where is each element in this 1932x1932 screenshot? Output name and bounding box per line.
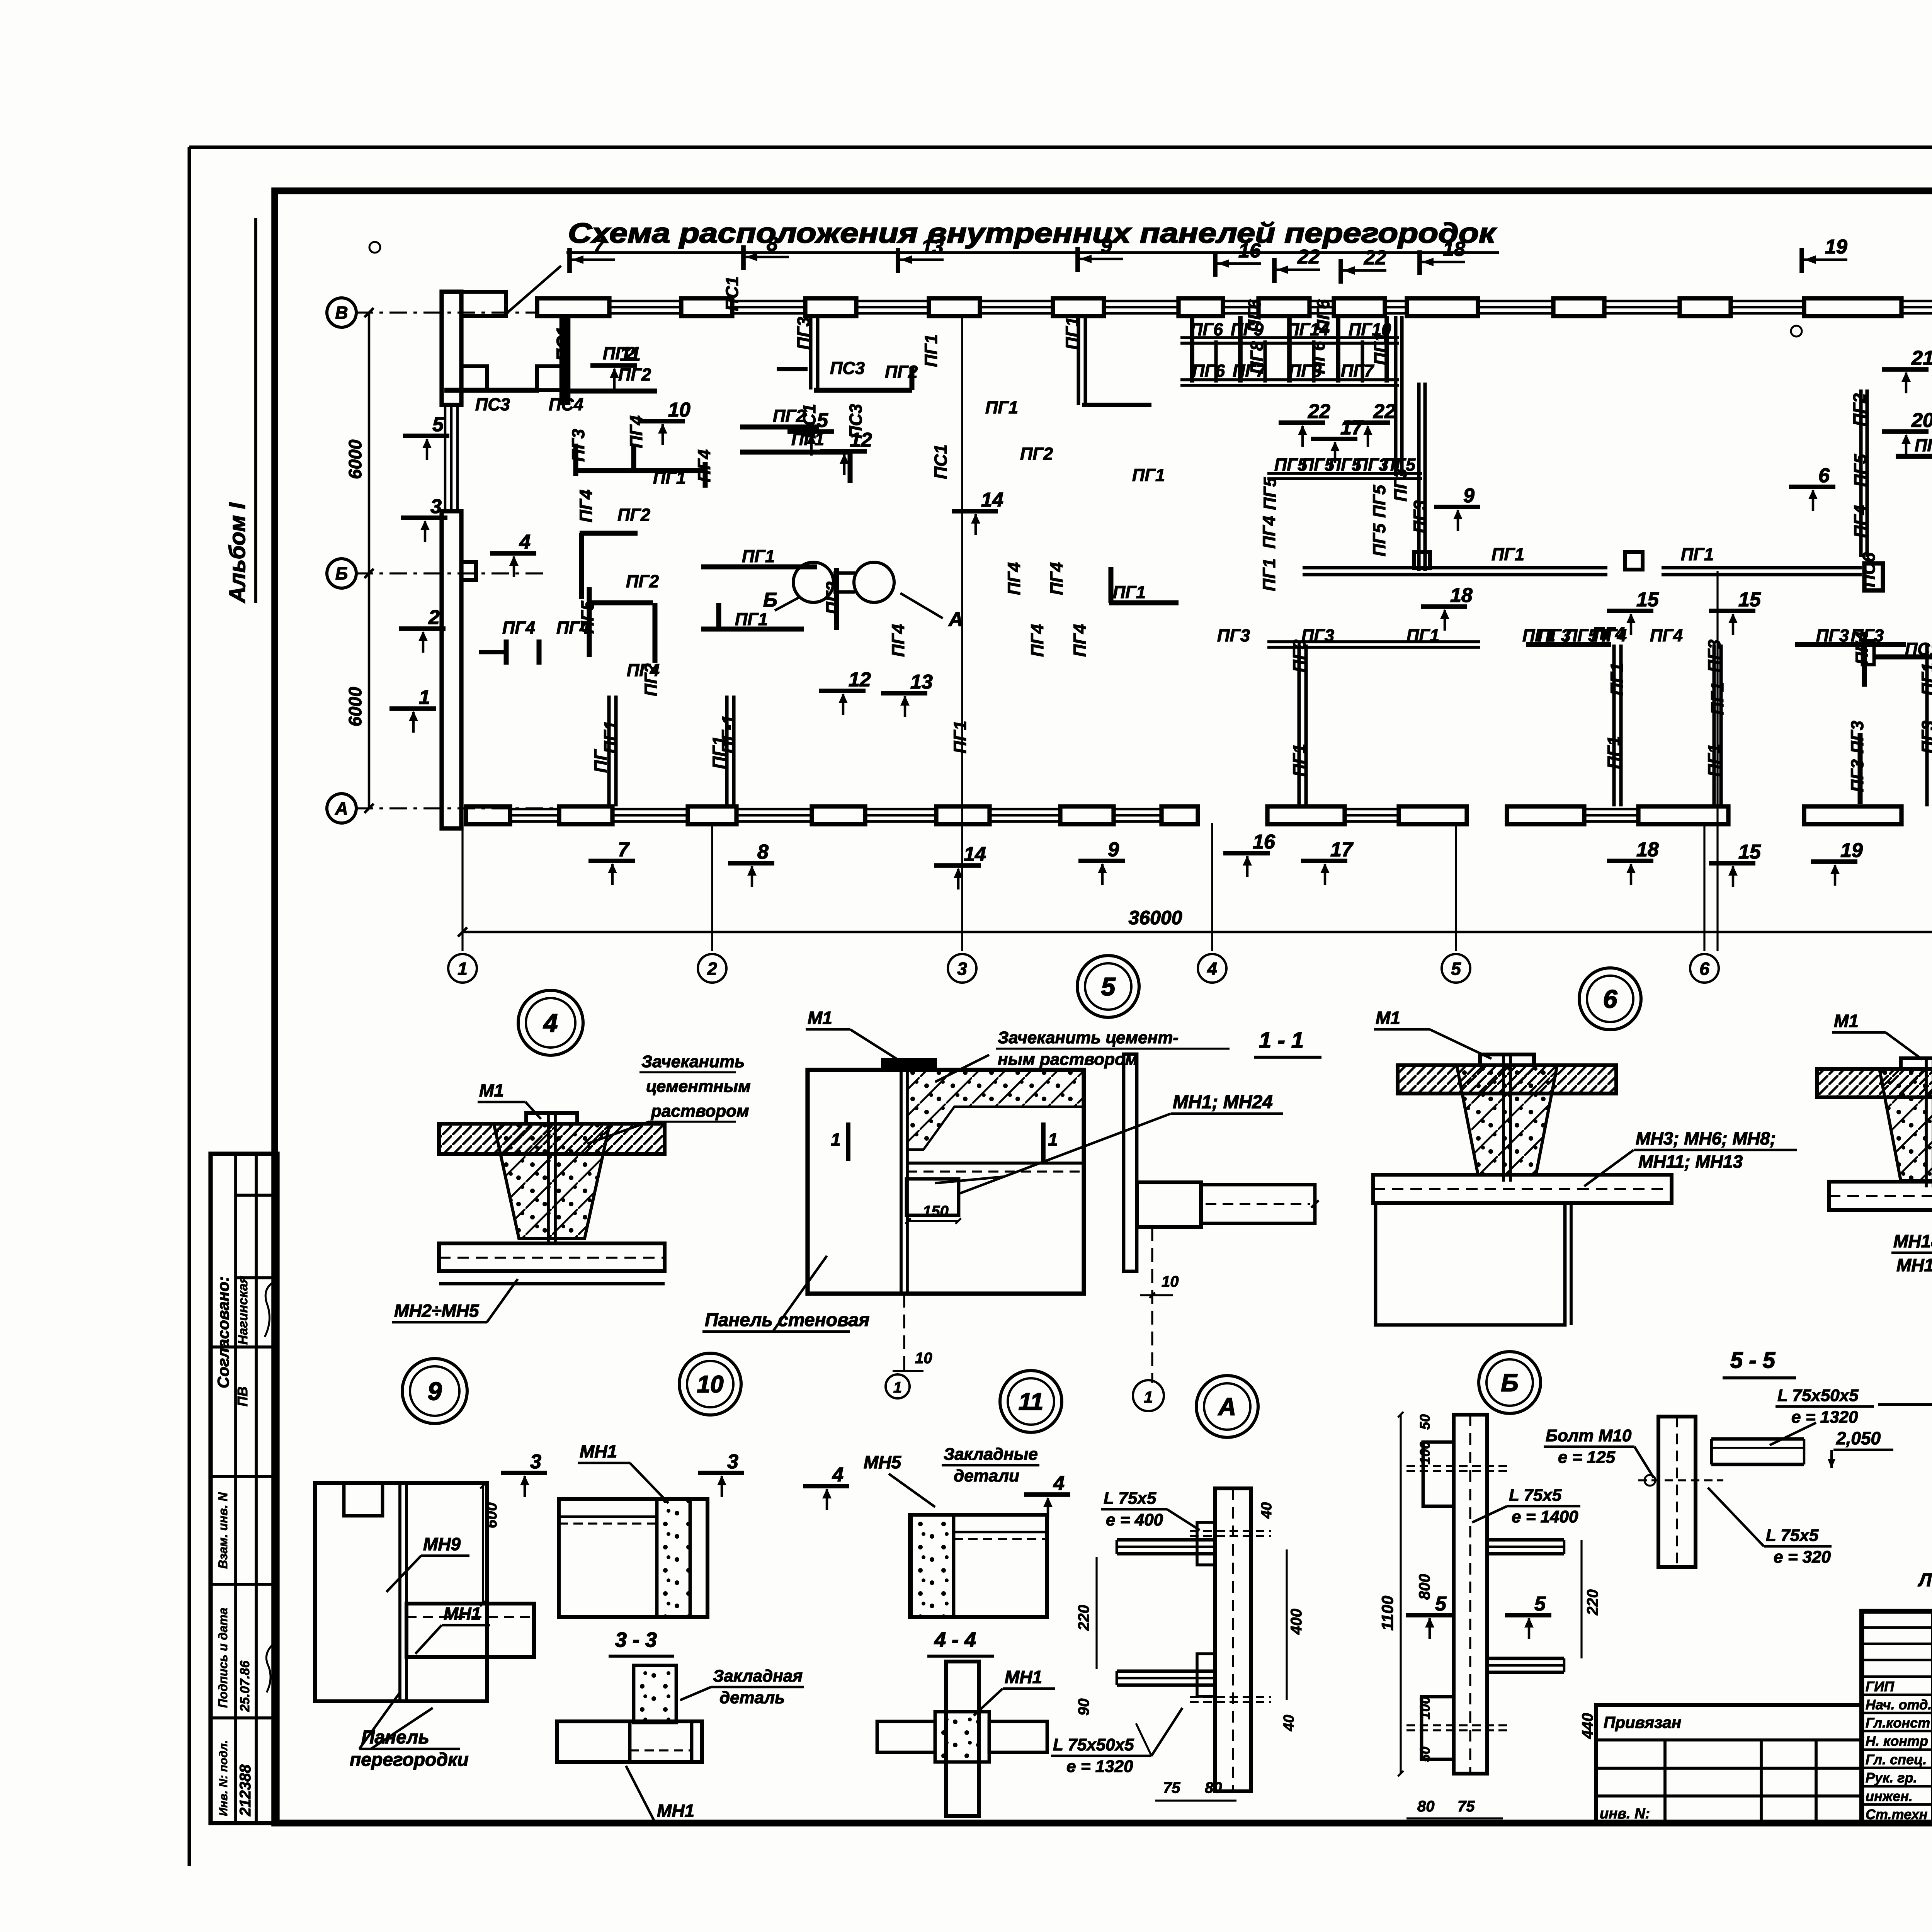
detail bubble A [1196,1376,1258,1437]
bottom exterior wall segment 4 [1804,806,1901,824]
detail 6 joint [1398,1054,1616,1182]
svg-text:3: 3 [957,959,967,979]
svg-text:440: 440 [1579,1713,1596,1739]
svg-text:Зачеканить: Зачеканить [641,1052,745,1071]
svg-text:ПС1: ПС1 [1905,639,1932,659]
svg-text:инжен.: инжен. [1866,1788,1913,1804]
detail A angle bottom [1117,1671,1215,1685]
detail 1-1 edge bolt [1140,1227,1179,1383]
section 3-3 label zakl [680,1667,804,1707]
svg-text:МН9: МН9 [423,1534,461,1554]
svg-text:В: В [335,303,348,323]
detail 1-1 flag 1 left [831,1122,848,1161]
svg-text:Зачеканить цемент-: Зачеканить цемент- [998,1028,1179,1047]
svg-text:ПГ4: ПГ4 [1047,562,1066,595]
svg-text:36000: 36000 [1128,907,1182,929]
svg-text:4: 4 [519,531,531,553]
svg-text:ПГ2: ПГ2 [823,582,842,614]
svg-text:ПГ4: ПГ4 [1027,624,1047,657]
top exterior wall with panels [537,298,1932,316]
section 4-4 body [877,1662,1047,1816]
detail 7 label MN18 [1891,1217,1932,1275]
outer border left [187,147,191,1866]
svg-text:ПГ4: ПГ4 [888,624,908,657]
axis circle B [327,559,356,588]
svg-text:ПГ3: ПГ3 [1217,626,1250,645]
svg-text:ПГ3: ПГ3 [1704,639,1724,672]
svg-text:ПС1: ПС1 [799,404,819,439]
partition room h3 [1795,642,1906,647]
svg-text:ПГ3: ПГ3 [568,429,588,462]
svg-text:Лист: Лист [1918,1570,1932,1590]
detail 7 label M1 [1832,1011,1922,1060]
detail 1-1 bubble 1 right [1133,1380,1164,1411]
shower room grid [1180,316,1425,571]
svg-text:е = 125: е = 125 [1558,1448,1616,1467]
detail A dim 400 [1287,1549,1305,1700]
detail B angle top [1487,1540,1564,1554]
detail 1-1 bubble 1 left [886,1374,910,1398]
detail A bolt bottom [1190,1697,1271,1702]
detail 1-1 step detail [906,1179,959,1215]
svg-text:ПГ4: ПГ4 [1850,505,1870,538]
detail 1-1 anchor plate [883,1060,935,1070]
svg-text:4: 4 [1207,959,1217,979]
svg-text:ПГ4: ПГ4 [1650,626,1683,645]
svg-text:13: 13 [910,671,933,693]
svg-text:Ст.техн: Ст.техн [1866,1806,1928,1822]
svg-text:ПГ3: ПГ3 [1816,626,1849,645]
svg-text:7: 7 [593,236,605,258]
detail 4 joint [439,1113,665,1245]
title block privyazan grid [1596,1705,1862,1823]
svg-text:раствором: раствором [651,1102,749,1121]
svg-text:220: 220 [1075,1605,1092,1631]
detail bubble 10 [679,1353,741,1415]
partition PS3 horizontal [444,388,539,393]
detail 7 panel below [1829,1182,1932,1210]
detail 10 flag 3 right [698,1451,744,1497]
svg-text:100: 100 [1417,1441,1433,1464]
detail 11 flag 4 right [1024,1472,1070,1519]
svg-text:А: А [335,798,348,818]
left stamp row c [211,1345,277,1349]
detail 6 panel elevation [1376,1203,1571,1325]
partition PG stub right [1109,567,1179,603]
svg-text:МН1: МН1 [1005,1667,1042,1687]
partition PS6 box [1864,563,1883,590]
detail B dim 80 75 [1406,1798,1503,1818]
svg-text:ГИП: ГИП [1866,1679,1895,1694]
left stamp block border [211,1154,277,1823]
door callout circle B [793,562,833,602]
left exterior wall [442,292,506,828]
detail A plate top [1197,1522,1215,1565]
svg-text:6: 6 [1699,959,1709,979]
section 5-5 label [1723,1348,1796,1378]
svg-text:ПГ1: ПГ1 [735,609,768,629]
svg-text:ПГ1: ПГ1 [950,721,970,753]
svg-text:МН18: МН18 [1893,1231,1932,1251]
partition PG1 tee [576,444,705,488]
partition room v4 [1927,643,1932,806]
svg-text:600: 600 [483,1502,500,1528]
partition PG2 cluster [589,587,655,663]
section 3-3 label [609,1628,674,1656]
svg-text:Привязан: Привязан [1604,1713,1681,1731]
detail bubble 9 [402,1359,467,1423]
svg-text:L 75х5: L 75х5 [1509,1486,1562,1505]
partition PG2 horizontal [565,389,657,394]
detail B flange bottom [1422,1697,1454,1759]
partition PG2 right stub [1896,454,1932,459]
detail B flag 5 right [1505,1593,1551,1639]
corridor wall axis B [1303,552,1862,575]
grid bubbles 1-7 [448,954,1932,983]
door callout circle A [854,562,894,602]
svg-text:е = 400: е = 400 [1106,1510,1163,1529]
section 5-5 label L75x50x5 [1770,1386,1874,1445]
svg-text:5: 5 [432,413,444,436]
detail 1-1 inner line [907,1163,1084,1172]
partition PS1 vertical [560,316,571,405]
svg-text:80: 80 [1417,1798,1435,1815]
svg-text:20: 20 [1911,409,1932,432]
detail A plate bottom [1197,1654,1215,1696]
partition PG long v2 [727,696,734,806]
svg-text:ПГ2: ПГ2 [603,344,636,363]
detail 10 flag 3 left [501,1451,547,1497]
svg-text:цементным: цементным [646,1077,751,1096]
svg-text:Н. контр: Н. контр [1866,1733,1928,1749]
detail 1-1 label panel [702,1256,869,1332]
svg-text:17: 17 [1340,417,1364,439]
svg-text:3 - 3: 3 - 3 [615,1628,657,1651]
svg-text:6: 6 [1603,985,1618,1013]
detail A dim 75 80 [1155,1779,1236,1801]
detail B flag 5 left [1406,1593,1452,1639]
svg-text:ПС1: ПС1 [931,444,951,479]
detail 10 label MN1 [578,1441,668,1503]
svg-text:Подпись и дата: Подпись и дата [216,1608,230,1708]
svg-text:220: 220 [1584,1589,1601,1616]
partition room v3 [1714,645,1721,806]
detail 4 label M1 [478,1080,541,1119]
svg-text:МН1; МН24: МН1; МН24 [1173,1092,1273,1112]
left stamp row f [211,1716,277,1719]
door callout link [833,573,855,592]
detail 11 label MN5 [864,1452,935,1507]
svg-text:1: 1 [457,959,468,979]
svg-text:ПС4: ПС4 [549,395,583,414]
svg-text:М1: М1 [808,1008,832,1028]
detail 1-1 concrete top [907,1070,1084,1150]
svg-text:Альбом I: Альбом I [225,502,250,604]
svg-text:ПГ4: ПГ4 [1852,632,1872,665]
svg-text:22: 22 [1297,246,1320,268]
svg-text:ПГ2: ПГ2 [617,505,650,525]
svg-text:8: 8 [767,233,778,255]
detail A angle top [1117,1540,1215,1554]
svg-text:18: 18 [1443,238,1465,260]
detail bubble B [1479,1352,1541,1413]
section 5-5 level 2.050 [1828,1428,1893,1468]
svg-text:40: 40 [1281,1715,1297,1731]
axis line A [355,807,560,809]
svg-text:16: 16 [1253,831,1276,853]
svg-text:ПГ6: ПГ6 [1313,299,1333,332]
detail 11 flag 4 left [803,1464,849,1510]
section 4-4 label [927,1628,994,1656]
svg-text:Б: Б [1501,1369,1518,1396]
svg-text:212388: 212388 [237,1764,254,1816]
svg-text:ПГ1: ПГ1 [1406,626,1439,645]
detail 1-1 label M1 [806,1008,896,1059]
svg-text:ПГ4: ПГ4 [1004,562,1024,595]
svg-text:Гл. спец.: Гл. спец. [1866,1752,1927,1767]
partition PG long v1 [609,696,616,806]
svg-text:ПГ1: ПГ1 [1371,332,1390,365]
svg-text:ПГ7: ПГ7 [1341,361,1374,381]
left dim line [364,308,374,813]
svg-text:5: 5 [1451,959,1461,979]
left stamp row d [211,1475,277,1478]
detail 7 panel edge below [1878,1210,1932,1405]
album fold line [254,218,257,603]
svg-text:6000: 6000 [345,687,365,726]
svg-text:14: 14 [964,843,986,866]
svg-text:ПГ4: ПГ4 [556,618,589,638]
section 5-5 label L75x5 [1708,1488,1832,1566]
axis line V [355,311,538,313]
svg-text:1: 1 [1048,1129,1058,1150]
svg-text:22: 22 [1364,247,1386,269]
svg-text:3: 3 [727,1451,738,1473]
svg-text:11: 11 [1019,1389,1043,1415]
detail B angle bottom [1487,1658,1564,1672]
svg-text:12: 12 [849,668,871,691]
svg-text:МН2÷МН5: МН2÷МН5 [394,1301,480,1321]
section 4-4 label MN1 [974,1667,1055,1716]
svg-text:10: 10 [915,1350,932,1367]
svg-text:Согласовано:: Согласовано: [214,1276,232,1388]
svg-text:МН5: МН5 [864,1452,902,1472]
svg-text:1: 1 [831,1129,841,1150]
svg-text:ПГ6: ПГ6 [1309,341,1328,374]
svg-text:4: 4 [832,1464,844,1486]
svg-text:ПГ8: ПГ8 [1247,341,1267,374]
svg-text:ПГ6: ПГ6 [1192,361,1225,381]
partition PS4 stub [537,366,565,390]
svg-text:ным раствором: ным раствором [998,1050,1138,1069]
partition PG3 upper tee [777,316,818,389]
svg-text:100: 100 [1417,1696,1433,1719]
overall dim line 36000 [458,927,1932,937]
detail A strip [1215,1488,1251,1791]
svg-text:ПГ5: ПГ5 [1260,477,1280,510]
title underline [566,251,1499,254]
svg-text:50: 50 [1417,1747,1433,1762]
svg-text:3: 3 [430,495,442,518]
svg-text:ПГ-1: ПГ-1 [718,715,738,753]
detail 1-1 note line1 [996,1028,1230,1049]
svg-text:А: А [1218,1393,1236,1420]
svg-text:ПГ1: ПГ1 [653,468,686,488]
detail A dim 220 [1075,1557,1097,1669]
svg-text:ПГ4: ПГ4 [1592,624,1625,643]
left stamp row e [211,1583,277,1586]
svg-text:перегородки: перегородки [350,1750,469,1770]
svg-text:А: А [948,608,963,631]
svg-text:ПГ3: ПГ3 [1918,721,1932,753]
svg-text:9: 9 [1463,485,1475,507]
detail B flange top [1423,1442,1454,1506]
main drawing frame [275,191,1932,1823]
svg-text:ПГ6: ПГ6 [1190,320,1223,339]
detail 7 joint [1817,1058,1932,1187]
svg-text:Нач. отд.: Нач. отд. [1866,1697,1932,1713]
svg-text:ПС3: ПС3 [475,395,510,414]
detail 6 panel below [1373,1175,1672,1203]
svg-text:15: 15 [1738,588,1761,611]
svg-text:2,050: 2,050 [1836,1428,1881,1448]
svg-text:8: 8 [757,841,769,863]
svg-text:ПГ4: ПГ4 [576,490,596,522]
svg-text:М1: М1 [479,1080,504,1100]
svg-text:деталь: деталь [719,1688,785,1707]
svg-text:ПГ3: ПГ3 [1847,759,1867,792]
svg-text:ПС3: ПС3 [846,404,866,439]
section flags below plan [588,831,1863,889]
partition room h2 [1526,642,1611,647]
partition room h1 [1267,642,1480,647]
svg-text:ПГ5: ПГ5 [1369,523,1389,556]
detail 1-1 note line2 [935,1050,1138,1082]
partition PS3 horizontal 2 [814,367,912,390]
svg-text:9: 9 [1101,235,1112,257]
svg-text:е = 320: е = 320 [1774,1548,1831,1566]
partition PS1 right lower [1862,641,1932,687]
svg-text:ПГ2: ПГ2 [618,365,651,384]
svg-text:ПГ3: ПГ3 [794,317,813,350]
left stamp row b [236,1276,277,1279]
svg-text:Нагинская: Нагинская [236,1276,250,1345]
svg-text:19: 19 [1825,236,1847,258]
svg-text:L 75х5: L 75х5 [1766,1526,1819,1545]
svg-text:15: 15 [1636,588,1659,611]
detail 4 note line2 [646,1077,751,1096]
svg-text:9: 9 [428,1377,442,1405]
svg-text:5: 5 [1435,1593,1447,1615]
axis circle V [327,298,356,327]
detail A bolt top [1190,1531,1271,1536]
svg-text:е = 1320: е = 1320 [1791,1408,1858,1427]
detail 4 note line1 [639,1052,745,1072]
svg-text:ПГ4: ПГ4 [627,660,660,680]
stamp signature 2 [266,1644,274,1692]
door callout label B [763,589,800,611]
svg-text:1: 1 [893,1379,902,1396]
svg-text:ПС3: ПС3 [830,358,865,378]
svg-text:ПГ1: ПГ1 [1132,465,1165,485]
small circle mark 2 [1791,326,1802,337]
svg-text:МН11; МН13: МН11; МН13 [1638,1151,1743,1172]
svg-text:ПГ4: ПГ4 [694,449,714,482]
bottom exterior wall segment 2 [1267,806,1467,824]
svg-text:7: 7 [618,838,630,861]
svg-text:ПС1: ПС1 [553,327,573,361]
svg-text:ПС1: ПС1 [722,276,742,311]
detail 1-1 bottom dim 10 [893,1350,932,1371]
svg-text:22: 22 [1308,400,1330,423]
svg-text:Рук. гр.: Рук. гр. [1866,1770,1917,1786]
svg-text:Б: Б [335,563,348,583]
svg-text:25.07.86: 25.07.86 [238,1660,252,1712]
svg-text:ПГ1: ПГ1 [1708,682,1727,715]
detail 1-1 label MN1 MN24 [935,1092,1283,1194]
svg-text:L 75х50х5: L 75х50х5 [1777,1386,1859,1405]
partition room v1 [1299,645,1306,806]
outer border top [189,145,1932,149]
svg-text:15: 15 [1738,841,1761,863]
partition labels [475,276,1932,792]
section 3-3 label MN1 [626,1766,707,1822]
svg-text:детали: детали [954,1466,1019,1485]
detail B dim 1100 [1378,1412,1403,1776]
detail 4 note line3 [587,1102,749,1144]
detail A label L75x50x5 [1051,1708,1182,1776]
svg-text:14: 14 [981,489,1003,511]
svg-text:ПГ1: ПГ1 [1289,744,1309,777]
svg-text:ПГ5: ПГ5 [1369,485,1389,518]
svg-text:1: 1 [419,686,430,709]
svg-text:5: 5 [1101,972,1116,1001]
svg-text:ПГ1: ПГ1 [1918,663,1932,696]
svg-text:4: 4 [1053,1472,1065,1495]
svg-text:50: 50 [1417,1414,1433,1430]
svg-text:МН1: МН1 [580,1441,617,1461]
svg-text:е = 1320: е = 1320 [1066,1757,1133,1776]
svg-text:2: 2 [428,606,440,629]
bottom exterior wall segment 3 [1507,806,1728,824]
svg-text:ПГ2: ПГ2 [626,571,659,591]
detail 1-1 edge panel [1124,1054,1319,1271]
svg-text:150: 150 [923,1203,949,1220]
svg-text:М1: М1 [1834,1011,1859,1031]
detail 1-1 flag 1 right [1043,1122,1058,1161]
detail bubble 11 [1000,1371,1062,1432]
svg-text:Закладные: Закладные [944,1445,1038,1464]
svg-text:13: 13 [921,236,944,258]
left stamp col line 2 [255,1154,258,1823]
svg-text:80: 80 [1205,1779,1222,1796]
svg-text:5 - 5: 5 - 5 [1730,1348,1776,1373]
svg-text:22: 22 [1373,400,1396,423]
detail 9 body [315,1483,487,1701]
svg-text:ПГ1: ПГ1 [985,398,1018,417]
svg-text:ПГ6: ПГ6 [1245,299,1264,332]
detail 9 label MN1 [415,1604,490,1654]
detail bubble 4 [518,990,583,1055]
svg-text:ПГ2: ПГ2 [1850,393,1869,426]
svg-text:Взам. инв. N: Взам. инв. N [216,1492,230,1569]
title block names [1866,1679,1932,1823]
axis line B [355,572,549,574]
section 5-5 column [1658,1417,1696,1567]
svg-text:3: 3 [530,1451,541,1473]
section 3-3 body [557,1665,702,1762]
partition PG1 mid horizontal [701,565,817,570]
